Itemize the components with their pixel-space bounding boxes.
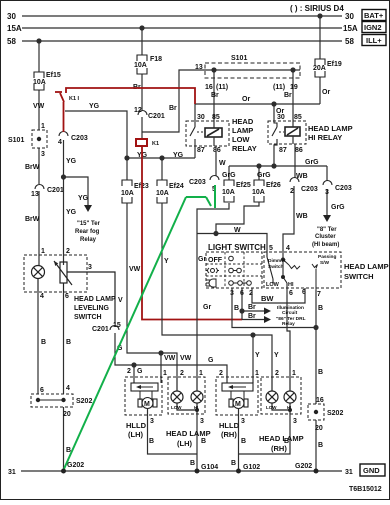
wire S202 to ground xyxy=(63,407,65,471)
wire Ef15 to S101 xyxy=(38,90,40,130)
svg-text:ILL+: ILL+ xyxy=(366,36,382,45)
svg-text:B: B xyxy=(149,438,154,445)
arrow 8 Ter cluster head xyxy=(323,215,331,222)
fuse Ef15 xyxy=(34,55,325,90)
svg-text:M: M xyxy=(144,401,150,408)
svg-text:HEAD LAMP: HEAD LAMP xyxy=(74,296,116,303)
svg-text:10A: 10A xyxy=(156,190,169,197)
HEAD LAMP LH box xyxy=(168,377,205,414)
node Br junction xyxy=(240,309,244,313)
parking lamp icon xyxy=(206,268,219,273)
svg-text:(LH): (LH) xyxy=(128,430,143,439)
connector C203 pin 5 xyxy=(210,176,219,181)
svg-text:WB: WB xyxy=(296,213,308,220)
svg-text:"15" Ter: "15" Ter xyxy=(77,221,101,227)
wire HLLD RH pin stubs xyxy=(226,377,228,383)
svg-text:W: W xyxy=(234,227,241,234)
svg-text:Switch: Switch xyxy=(268,264,284,270)
svg-text:85: 85 xyxy=(294,114,302,121)
wire LOW relay 30 drop xyxy=(194,104,196,121)
svg-text:GrG: GrG xyxy=(305,159,319,166)
fuse Ef25 xyxy=(224,180,234,186)
S202 internal link xyxy=(38,399,64,401)
node lamp RH join xyxy=(288,408,292,412)
svg-text:B: B xyxy=(234,305,239,312)
svg-text:S202: S202 xyxy=(327,410,343,417)
svg-text:4: 4 xyxy=(66,385,70,392)
wire labels upper left xyxy=(8,55,342,223)
HLLD LH motor xyxy=(138,398,157,409)
head lamp hi relay box xyxy=(268,121,306,144)
connector C203 pin 2 xyxy=(290,178,299,182)
text HEAD LAMP LOW RELAY xyxy=(232,117,353,153)
svg-text:YG: YG xyxy=(89,103,100,110)
HEAD LAMP RH box xyxy=(261,377,301,414)
dimmer switch contact xyxy=(267,252,287,295)
hi relay coil xyxy=(285,127,300,136)
GND box xyxy=(360,464,385,476)
svg-text:GrG: GrG xyxy=(257,172,271,179)
wire green ground path C203-5 blade xyxy=(64,185,216,470)
svg-text:BW: BW xyxy=(261,294,274,303)
node S202 right xyxy=(314,410,318,414)
svg-text:Y: Y xyxy=(164,258,169,265)
svg-text:2: 2 xyxy=(219,370,223,377)
text 15 Ter Rear fog Relay xyxy=(75,221,101,243)
svg-text:1: 1 xyxy=(163,370,167,377)
wire leveling outputs down to S202 xyxy=(37,292,39,394)
hi relay contact xyxy=(272,121,284,136)
svg-text:Y: Y xyxy=(255,352,260,359)
svg-text:Relay: Relay xyxy=(80,237,97,243)
svg-text:(LH): (LH) xyxy=(177,439,192,448)
svg-text:10A: 10A xyxy=(222,189,235,196)
svg-text:87: 87 xyxy=(197,147,205,154)
head lamp switch box xyxy=(264,252,341,288)
wire G from C201-15 to HLLD pins xyxy=(115,333,227,377)
svg-text:Ef19: Ef19 xyxy=(327,61,342,68)
svg-text:LIGHT SWITCH: LIGHT SWITCH xyxy=(208,243,266,252)
svg-text:G: G xyxy=(137,368,143,375)
light switch box xyxy=(206,252,262,288)
svg-text:YG: YG xyxy=(173,152,184,159)
svg-text:YG: YG xyxy=(66,209,77,216)
node G102 xyxy=(236,469,241,474)
svg-text:87: 87 xyxy=(279,147,287,154)
svg-text:G202: G202 xyxy=(295,463,312,470)
node 58/Ef15 xyxy=(37,39,41,43)
wire hi relay 86 WB down xyxy=(294,144,296,178)
svg-text:1: 1 xyxy=(41,123,45,130)
relay pin labels xyxy=(197,114,303,154)
svg-text:OFF: OFF xyxy=(208,257,223,264)
svg-text:SWITCH: SWITCH xyxy=(344,272,374,281)
svg-text:Rear fog: Rear fog xyxy=(75,229,100,235)
lamp LH low xyxy=(171,377,203,414)
svg-text:Gr: Gr xyxy=(198,256,206,263)
svg-text:BrW: BrW xyxy=(25,164,40,171)
ground labels xyxy=(8,460,353,476)
wire BW link pin2 to pin6 xyxy=(252,288,305,303)
lamp RH hi xyxy=(289,377,291,391)
wire S101 pin19 Br to HI relay 85 xyxy=(292,70,294,121)
svg-text:10A: 10A xyxy=(252,189,265,196)
wire branch to S101 pin13 xyxy=(142,70,205,132)
wire HLLD RH pin3 to G102 xyxy=(238,409,240,472)
wire pin3 B down xyxy=(232,288,316,328)
svg-text:Ef25: Ef25 xyxy=(236,182,251,189)
wire 58 to Ef15 xyxy=(38,41,40,72)
node S101 right xyxy=(291,68,295,72)
svg-text:58: 58 xyxy=(345,37,354,46)
bus 15A xyxy=(22,27,342,29)
svg-text:(11): (11) xyxy=(216,84,228,91)
wire YG bus to Ef24 xyxy=(161,158,163,180)
svg-text:"8" Ter: "8" Ter xyxy=(317,227,337,233)
svg-text:2: 2 xyxy=(290,188,294,195)
svg-text:HLLD: HLLD xyxy=(219,421,240,430)
svg-text:S/W: S/W xyxy=(320,260,330,266)
node GrG Ef26 xyxy=(257,164,261,168)
S202 right labels xyxy=(315,397,343,432)
wire Ef26 jog to W line xyxy=(216,202,259,234)
lamp RH low xyxy=(266,377,296,414)
wire lamp stubs xyxy=(38,264,40,267)
svg-text:K1 I: K1 I xyxy=(69,96,80,102)
wire hi relay 87 to GrG bus xyxy=(274,139,277,166)
svg-text:G102: G102 xyxy=(243,464,260,471)
svg-text:B: B xyxy=(318,305,323,312)
node dimmer pin4 xyxy=(281,258,285,262)
svg-text:20A: 20A xyxy=(313,65,326,72)
svg-text:YG: YG xyxy=(66,158,77,165)
svg-text:V: V xyxy=(118,297,123,304)
wire HI output to headlamp RH pin1 xyxy=(287,295,290,377)
svg-text:13: 13 xyxy=(195,64,203,71)
connector C203 pin 4 xyxy=(59,132,68,137)
svg-text:3: 3 xyxy=(293,418,297,425)
svg-text:Br: Br xyxy=(211,92,219,99)
ILL+ box xyxy=(362,35,386,46)
svg-text:2: 2 xyxy=(275,370,279,377)
svg-text:LOW: LOW xyxy=(232,135,250,144)
wire Y from Ef24 down and across xyxy=(162,203,272,377)
node YG Ef24 xyxy=(160,156,164,160)
wire pin7 B down to S202 right xyxy=(315,290,317,404)
leveling pin labels xyxy=(40,248,92,300)
node YG Ef23 xyxy=(125,156,129,160)
svg-text:Circuit: Circuit xyxy=(282,310,298,316)
wire C201-13 to leveling switch pin1 xyxy=(38,191,40,265)
svg-text:GND: GND xyxy=(363,466,380,475)
svg-text:3: 3 xyxy=(41,151,45,158)
svg-text:BrW: BrW xyxy=(25,216,40,223)
svg-text:(RH): (RH) xyxy=(271,444,287,453)
svg-text:7: 7 xyxy=(317,291,321,298)
svg-text:6: 6 xyxy=(289,290,293,297)
wire W line to dimmer pin 5 xyxy=(197,234,267,258)
svg-text:4: 4 xyxy=(286,245,290,252)
text 8 Ter Cluster (HI beam) xyxy=(312,227,339,248)
wire C203-3 to arrow 8 Ter cluster xyxy=(326,189,328,215)
lamp RH bottoms join xyxy=(272,403,290,410)
node S101 left xyxy=(212,68,216,72)
svg-text:HI: HI xyxy=(287,405,291,410)
fuse Ef23 xyxy=(122,180,264,203)
text Illumination Circuit xyxy=(276,305,306,327)
svg-text:(11): (11) xyxy=(273,84,285,91)
svg-text:G: G xyxy=(208,357,214,364)
node G202 right xyxy=(314,469,319,474)
node hi contact xyxy=(281,275,285,279)
HLLD LH motor links xyxy=(139,391,141,400)
svg-text:HI: HI xyxy=(288,282,294,288)
svg-text:B: B xyxy=(41,339,46,346)
wire HLLD LH pin stubs xyxy=(133,377,135,383)
wire S101 internal xyxy=(205,69,300,71)
svg-text:C203: C203 xyxy=(71,135,88,142)
labels left YG area xyxy=(58,103,100,216)
svg-text:W: W xyxy=(219,160,226,167)
svg-text:C201: C201 xyxy=(92,326,109,333)
lamp LH bottoms join xyxy=(177,403,197,410)
svg-text:Br: Br xyxy=(284,92,292,99)
svg-text:13: 13 xyxy=(31,191,39,198)
wire 30 to Ef19 xyxy=(319,16,321,59)
svg-text:Cluster: Cluster xyxy=(315,234,336,240)
wire red DRL: K1 coil down and across to DRL relay arrow xyxy=(142,146,242,320)
wire Gr from Ef25 jog down to headlamp LH pin1 xyxy=(197,203,229,377)
lamp LH hi xyxy=(196,377,198,391)
wire Br arrow DRL xyxy=(242,319,264,321)
svg-text:GrG: GrG xyxy=(222,172,236,179)
svg-text:B: B xyxy=(318,369,323,376)
svg-text:10A: 10A xyxy=(33,79,46,86)
svg-text:86: 86 xyxy=(295,147,303,154)
node Or/HI30 xyxy=(272,102,276,106)
headlamp icon xyxy=(206,279,216,287)
leveling lamp symbol xyxy=(32,261,116,324)
low relay coil xyxy=(205,128,222,137)
svg-text:(HI beam): (HI beam) xyxy=(312,242,339,248)
RH pin labels xyxy=(241,370,297,445)
wire headlamp RH pin3 to G102 xyxy=(239,414,291,454)
fuse Ef24 xyxy=(157,180,167,186)
svg-text:2: 2 xyxy=(66,248,70,255)
wire YG bus to Ef23 xyxy=(126,158,128,180)
svg-text:4: 4 xyxy=(40,293,44,300)
wire Or bus xyxy=(195,103,320,105)
svg-text:VW: VW xyxy=(164,355,176,362)
svg-text:30: 30 xyxy=(277,114,285,121)
svg-text:Passing: Passing xyxy=(318,254,336,260)
ground bus 31 xyxy=(21,470,342,472)
svg-text:C201: C201 xyxy=(148,113,165,120)
fuse F18 xyxy=(137,55,147,61)
svg-text:S202: S202 xyxy=(76,398,92,405)
head lamp low relay box xyxy=(186,121,229,146)
svg-text:19: 19 xyxy=(290,84,298,91)
connector C203 pin 3 xyxy=(323,181,332,186)
svg-text:IGN2: IGN2 xyxy=(364,23,382,32)
svg-text:C203: C203 xyxy=(189,179,206,186)
svg-text:HEAD: HEAD xyxy=(232,117,254,126)
node S101 left splice xyxy=(37,137,41,141)
wire GrG to Ef25 xyxy=(228,166,230,180)
node pin7/B junction xyxy=(314,326,318,330)
svg-text:85: 85 xyxy=(212,114,220,121)
arrow illumination head xyxy=(264,308,271,315)
wire low relay 87 to YG bus xyxy=(194,146,196,158)
svg-text:Relay: Relay xyxy=(282,321,295,327)
leveling potentiometer xyxy=(60,262,67,283)
svg-text:LEVELING: LEVELING xyxy=(74,305,110,312)
HLLD RH actuator xyxy=(222,383,253,391)
bus 30 xyxy=(22,15,342,17)
splice S101 top box xyxy=(205,63,300,78)
head lamp leveling switch box xyxy=(24,255,87,292)
svg-text:30: 30 xyxy=(197,114,205,121)
svg-text:B: B xyxy=(201,438,206,445)
IGN2 box xyxy=(362,22,386,33)
svg-text:HEAD LAMP: HEAD LAMP xyxy=(166,429,211,438)
wire VW drop HLLD LH pin1 xyxy=(160,353,162,377)
relay K1 coil (red box) xyxy=(136,139,147,146)
svg-text:B: B xyxy=(231,460,236,467)
node 15A/F18 xyxy=(140,26,144,30)
node GrG hi87 xyxy=(272,164,276,168)
svg-text:2: 2 xyxy=(127,368,131,375)
svg-text:VW: VW xyxy=(33,103,45,110)
svg-text:HI RELAY: HI RELAY xyxy=(308,133,342,142)
text labels top left xyxy=(7,4,358,46)
wire C201-12 to K1 xyxy=(141,117,143,139)
wire GrG to C203-3 xyxy=(326,166,328,181)
svg-text:1: 1 xyxy=(292,370,296,377)
svg-text:20: 20 xyxy=(63,411,71,418)
switch pin labels xyxy=(230,245,321,298)
node S202 b xyxy=(61,398,65,402)
connector C201 pin 13 xyxy=(35,185,44,190)
HLLD LH actuator xyxy=(131,383,158,391)
node G202 left xyxy=(61,469,66,474)
svg-text:C201: C201 xyxy=(47,187,64,194)
wire red DRL: C203-4 up, K1 contact, across to Or corner xyxy=(55,88,195,132)
svg-text:GrG: GrG xyxy=(331,204,345,211)
svg-text:(RH): (RH) xyxy=(221,430,237,439)
svg-text:Ef26: Ef26 xyxy=(266,182,281,189)
light switch row3 contacts xyxy=(229,281,252,286)
wire 15A to F18 xyxy=(141,28,143,55)
svg-text:S101: S101 xyxy=(231,55,247,62)
svg-text:31: 31 xyxy=(8,469,16,476)
svg-text:3: 3 xyxy=(88,264,92,271)
svg-text:86: 86 xyxy=(213,147,221,154)
wire Ef19 to Or bus xyxy=(319,77,321,104)
GrG bus xyxy=(229,165,327,167)
svg-text:3: 3 xyxy=(150,418,154,425)
svg-text:Or: Or xyxy=(242,96,250,103)
svg-text:1: 1 xyxy=(199,370,203,377)
wire headlamp LH pin3 to G104 xyxy=(196,414,198,471)
svg-text:B: B xyxy=(241,438,246,445)
svg-text:Or: Or xyxy=(322,89,330,96)
node G104 xyxy=(195,469,200,474)
HLLD RH motor xyxy=(229,398,248,409)
svg-text:WB: WB xyxy=(296,173,308,180)
svg-text:30: 30 xyxy=(345,12,354,21)
svg-text:C203: C203 xyxy=(335,185,352,192)
svg-text:BAT+: BAT+ xyxy=(364,11,384,20)
svg-text:LAMP: LAMP xyxy=(232,126,253,135)
svg-text:20: 20 xyxy=(315,425,323,432)
svg-text:RELAY: RELAY xyxy=(232,144,257,153)
svg-text:B: B xyxy=(318,442,323,449)
text HEAD LAMP LEVELING SWITCH xyxy=(74,296,116,321)
svg-text:HEAD LAMP: HEAD LAMP xyxy=(344,262,389,271)
wire pin6 down to Br junction xyxy=(241,288,243,320)
svg-text:10A: 10A xyxy=(121,190,134,197)
svg-text:B: B xyxy=(190,460,195,467)
svg-text:YG: YG xyxy=(78,195,89,202)
splice S101 left box xyxy=(32,130,47,148)
svg-text:30: 30 xyxy=(7,12,16,21)
svg-text:6: 6 xyxy=(65,293,69,300)
svg-text:S101: S101 xyxy=(8,137,24,144)
passing switch blade xyxy=(283,260,318,291)
wire S202 right to ground xyxy=(315,420,317,471)
svg-text:4: 4 xyxy=(58,139,62,146)
wire HLLD LH pin3 to ground join xyxy=(148,409,198,455)
wire GrG to Ef26 xyxy=(258,166,260,180)
node W Ef26 xyxy=(214,232,218,236)
wire S101 pin16 Br to LOW relay 85 xyxy=(213,70,215,121)
svg-text:( ) : SIRIUS D4: ( ) : SIRIUS D4 xyxy=(290,4,344,13)
light switch grid xyxy=(206,252,262,288)
fuse Ef26 xyxy=(254,180,264,186)
svg-text:2: 2 xyxy=(180,370,184,377)
LH pin labels xyxy=(149,370,206,445)
svg-text:3: 3 xyxy=(200,418,204,425)
svg-text:T6B15012: T6B15012 xyxy=(349,486,382,493)
svg-text:12: 12 xyxy=(134,107,142,114)
wire green diagonal to G202 xyxy=(64,197,187,470)
fuse and connector labels mid xyxy=(121,152,352,220)
svg-text:LOW: LOW xyxy=(171,405,182,410)
low relay contact xyxy=(190,121,203,146)
node lamp LH join xyxy=(195,408,199,412)
svg-text:5: 5 xyxy=(269,245,273,252)
node G LH xyxy=(132,363,136,367)
S202 labels xyxy=(40,266,223,469)
splice S202 left box xyxy=(31,394,73,407)
YG bus xyxy=(127,157,195,159)
svg-text:16: 16 xyxy=(205,84,213,91)
low relay coil stubs xyxy=(213,121,215,128)
wire F18 down to C201-12 xyxy=(141,74,143,110)
BAT+ box xyxy=(362,10,386,46)
svg-text:16: 16 xyxy=(316,397,324,404)
svg-text:1: 1 xyxy=(255,370,259,377)
wire leveling output pin3 to V wire xyxy=(67,272,115,324)
connector C201 pin 15 xyxy=(110,326,119,331)
svg-text:Gr: Gr xyxy=(203,304,211,311)
svg-text:HLLD: HLLD xyxy=(126,421,147,430)
svg-text:10A: 10A xyxy=(134,62,147,69)
arrow rear fog relay head xyxy=(84,205,92,212)
svg-text:Dimmer: Dimmer xyxy=(268,258,286,264)
fuse Ef19 xyxy=(315,59,325,65)
